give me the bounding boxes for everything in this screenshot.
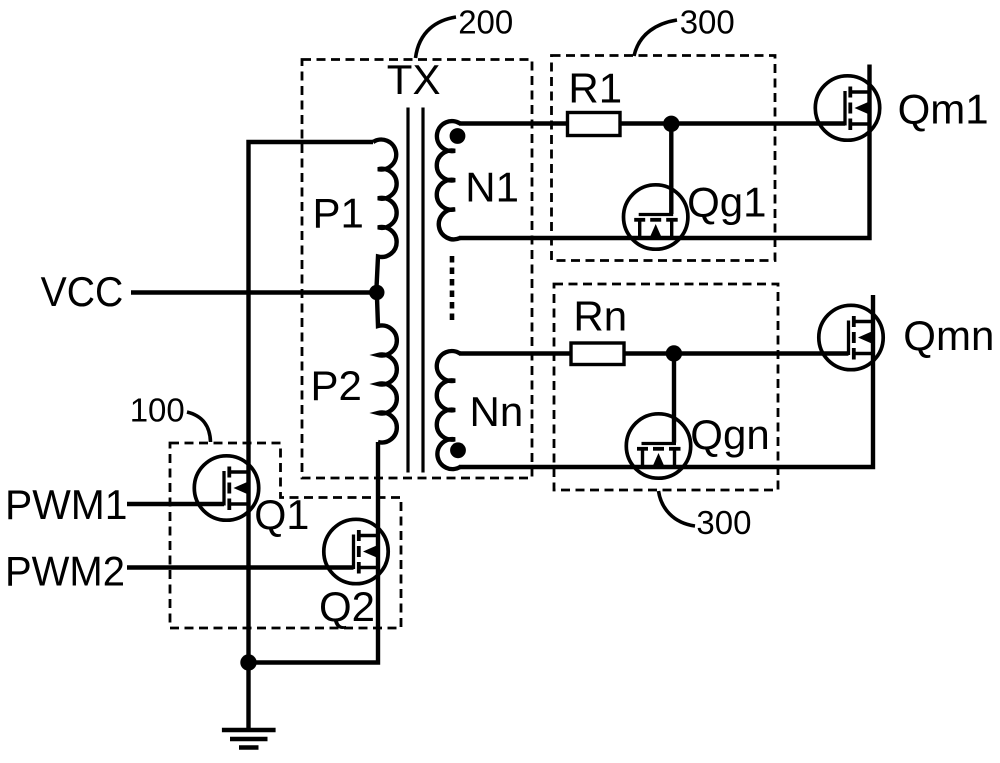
svg-text:P2: P2	[311, 362, 362, 409]
transistor Qgn	[626, 414, 690, 478]
svg-text:Rn: Rn	[573, 293, 627, 340]
svg-text:R1: R1	[568, 65, 622, 112]
separator dashes between secondaries	[450, 256, 455, 325]
wire: left vertical bus with P1 top horizontal	[249, 142, 374, 730]
wire: PWM1 lead	[127, 502, 224, 506]
wire: Nn bottom rail to Qmn drain top	[459, 295, 873, 467]
transistor Qmn	[819, 305, 883, 369]
svg-text:300: 300	[680, 4, 735, 41]
svg-text:Qgn: Qgn	[690, 411, 769, 458]
winding Nn	[437, 351, 460, 469]
node: bottom junction dot	[240, 654, 256, 670]
dashed box 100	[170, 443, 401, 628]
transformer core lines	[406, 108, 409, 473]
node: R1 output junction dot	[663, 116, 679, 132]
node: Nn phase dot	[450, 442, 466, 458]
winding P2	[377, 292, 397, 443]
dashed box 300 lower	[554, 284, 778, 490]
transistor Q1	[194, 456, 258, 520]
leader to 100	[187, 412, 211, 442]
node: Rn output junction dot	[666, 345, 682, 361]
wire: N1 bottom rail to Qm1 drain top	[459, 65, 870, 239]
winding N1	[437, 121, 460, 239]
wire: Qgn gate lead	[672, 354, 676, 443]
svg-text:VCC: VCC	[41, 268, 124, 315]
leader to 300 upper	[634, 20, 677, 56]
svg-text:PWM2: PWM2	[5, 548, 125, 595]
resistor R1	[568, 113, 621, 136]
dashed box 300 upper	[552, 56, 776, 261]
svg-text:PWM1: PWM1	[5, 481, 128, 528]
transistor Qg1	[624, 185, 688, 249]
wire: Nn top lead	[459, 351, 849, 355]
leader to 200	[416, 17, 457, 58]
svg-text:N1: N1	[465, 164, 519, 211]
svg-text:300: 300	[696, 504, 751, 541]
wire: P2 bottom to Q2 and down to bottom rail	[249, 442, 379, 663]
node: N1 phase dot	[450, 128, 466, 144]
resistor Rn	[571, 343, 624, 365]
transistor Q2	[324, 519, 388, 583]
wire: PWM2 lead	[127, 565, 354, 569]
wire: Qg1 gate lead	[669, 124, 673, 214]
ground	[222, 730, 276, 748]
leader to 300 lower	[659, 491, 696, 526]
dashed box 200 TX	[302, 60, 532, 479]
svg-text:Q2: Q2	[319, 583, 375, 630]
svg-text:TX: TX	[387, 56, 441, 103]
svg-text:100: 100	[130, 392, 185, 429]
svg-text:Qg1: Qg1	[687, 179, 766, 226]
winding P1	[373, 140, 397, 292]
svg-text:P1: P1	[313, 190, 364, 237]
svg-text:Qm1: Qm1	[898, 86, 989, 133]
svg-text:200: 200	[458, 4, 513, 41]
svg-text:Q1: Q1	[254, 491, 309, 538]
wire: VCC feed	[131, 290, 377, 295]
wire: N1 top lead	[459, 121, 845, 125]
svg-text:Qmn: Qmn	[903, 312, 994, 359]
node: center tap dot	[369, 285, 384, 300]
svg-text:Nn: Nn	[470, 388, 524, 435]
transistor Qm1	[815, 76, 879, 140]
